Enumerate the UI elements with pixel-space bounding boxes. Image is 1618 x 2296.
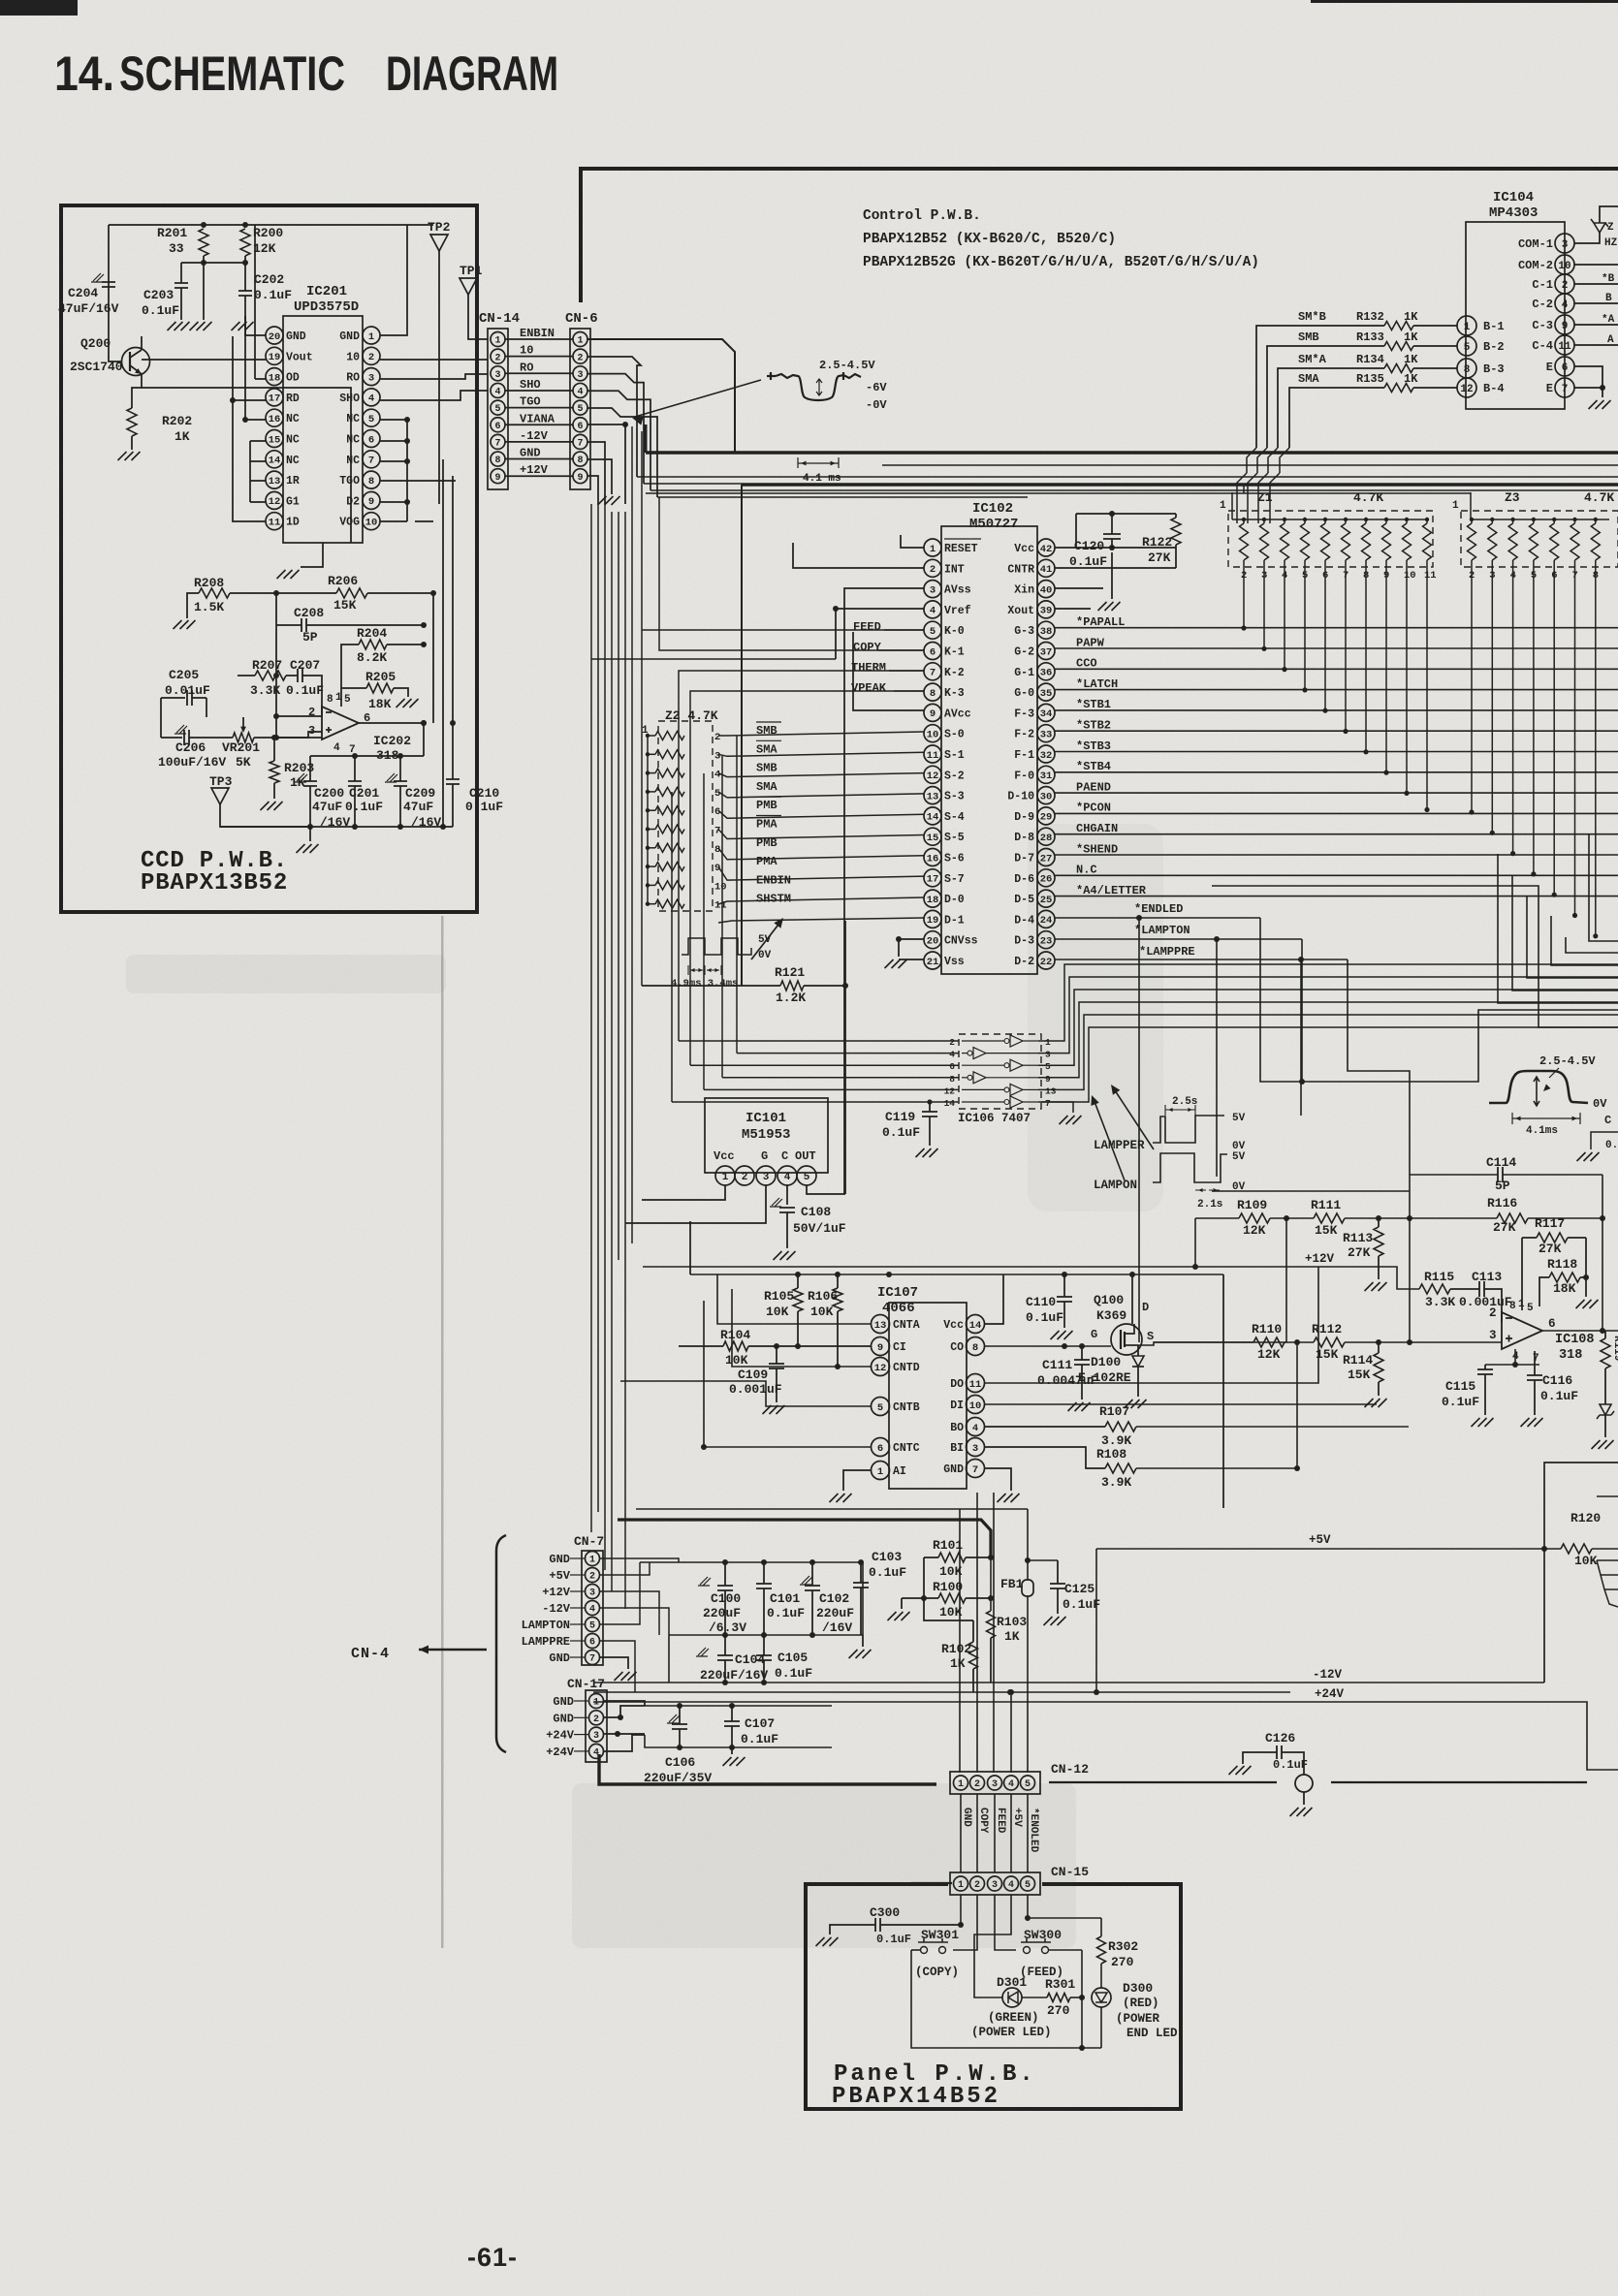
CN-12 pin 1	[954, 1776, 968, 1790]
IC201 UPD3575D body	[283, 316, 363, 543]
wire IC102 left pin stubs to bundle	[901, 535, 924, 548]
IC102 pin 21 Vss	[924, 952, 941, 969]
IC102 pin 17 S-7	[924, 869, 941, 887]
wire SMB bus crossing jog	[1257, 448, 1267, 473]
wire +24V rail	[593, 1702, 1618, 1770]
wire CN-15 pin3 feed	[995, 1895, 1016, 1950]
Z2 resistor 8	[655, 843, 684, 852]
wire D-4 row	[1055, 917, 1260, 919]
wire thick CN-12 feed	[599, 1754, 936, 1784]
wire R208 right node	[230, 592, 336, 594]
IC102 pin 3 AVss	[924, 581, 941, 598]
wire bundle link rows	[591, 658, 836, 660]
wire R100/R101 node	[923, 1557, 925, 1598]
IC101 M51953 body	[705, 1098, 828, 1173]
wire CN-6 pin1 to bus A	[587, 339, 735, 453]
wire Q200 collector to IC201 Vout	[141, 336, 143, 350]
wire IC102 pin 33 to right	[1055, 730, 1618, 732]
wire C204 column	[109, 225, 122, 362]
CN-15 pin 2	[970, 1876, 985, 1891]
IC102 pin 5 K-0	[924, 621, 941, 639]
wire IC107 vcc rail	[690, 1274, 1223, 1275]
IC102 pin 2 INT	[924, 559, 941, 577]
wire D-0 D-1 rows from Z2	[718, 897, 924, 904]
CN-14 pin 5	[491, 400, 505, 415]
Z3 resistor 4	[1508, 523, 1517, 560]
IC102 pin 18 D-0	[924, 890, 941, 907]
wire R132 row	[1413, 325, 1457, 327]
wire bus B riser	[741, 485, 743, 986]
wire IC101 pin5 out	[807, 1185, 845, 1194]
Z3 resistor 6	[1550, 523, 1559, 560]
ground below R201	[190, 322, 212, 330]
IC107 pin 4 BO	[967, 1418, 985, 1436]
IC102 pin 34 F-3	[1037, 704, 1055, 721]
Z2 resistor 5	[655, 787, 684, 796]
IC201 pin 5 NC	[363, 409, 380, 426]
bus B thick horizontal	[742, 483, 1618, 487]
Z3 top rail	[1471, 519, 1609, 520]
IC201 pin 16 NC	[266, 409, 283, 426]
IC102 pin 36 G-1	[1037, 663, 1055, 680]
wire SM*B bus crossing jog	[1247, 448, 1256, 473]
wire C107 ground	[731, 1747, 733, 1754]
ground CN-6 pin8	[598, 496, 620, 505]
page corner mark	[0, 0, 78, 16]
wire IC107 Vcc to rail	[984, 1274, 1003, 1324]
wire Z1 pin 10 drop	[1406, 560, 1408, 793]
IC102 pin 32 F-1	[1037, 745, 1055, 763]
wire C106 C107 rails	[645, 1705, 832, 1707]
Z1 resistor 8	[1362, 523, 1371, 560]
wire cap bank low rail	[722, 1680, 728, 1685]
wire lamppre drop	[1300, 959, 1302, 1116]
IC102 pin 22 D-2	[1037, 952, 1055, 969]
wire feedback box left vertical	[1409, 1175, 1411, 1342]
CN-15 pin 4	[1004, 1876, 1019, 1891]
wire CN-15 pin2 copy	[953, 1895, 977, 1950]
CN-6 pin 6	[573, 418, 587, 432]
wire top rail CCD	[109, 224, 433, 226]
wire control area lower border	[882, 464, 1618, 466]
IC104 pin 5 B-2	[1457, 336, 1476, 356]
ground below C202	[232, 322, 254, 330]
CCD P.W.B. board outline	[61, 205, 477, 912]
IC101 pin 1	[715, 1166, 735, 1185]
ground R203	[261, 802, 283, 810]
arrow to SHSTM	[751, 921, 781, 959]
ground C300	[816, 1937, 839, 1946]
Z2 resistor 2	[655, 732, 684, 740]
IC104 pin 8 B-3	[1457, 359, 1476, 378]
ground C125	[1044, 1617, 1066, 1625]
wire CN-6 pin6 node	[587, 425, 625, 504]
ground cap bank	[862, 1635, 864, 1647]
IC107 pin 9 CI	[872, 1337, 890, 1356]
CN-6 pin 4	[573, 383, 587, 397]
wire op-amp pin2 input	[276, 715, 322, 717]
IC101 pin 5	[797, 1166, 816, 1185]
wire cap bank mid rail	[669, 1634, 863, 1636]
CN-14 pin 7	[491, 434, 505, 449]
IC104 pin 12 B-4	[1457, 378, 1476, 397]
IC102 pin 41 CNTR	[1037, 559, 1055, 577]
IC107 4066 body	[889, 1303, 967, 1489]
wire C120 ground drop	[1111, 552, 1113, 599]
wire R112-R114 vertical	[1296, 1342, 1298, 1468]
wire Z1 feed line	[646, 492, 1471, 494]
IC102 pin 13 S-3	[924, 787, 941, 804]
capacitor C101	[763, 1562, 765, 1584]
wire GND pin IC107	[984, 1468, 1011, 1491]
wire IC201 left pin stubs	[245, 316, 266, 335]
wire CN-15 pin1 down	[960, 1895, 962, 1925]
IC104 pin 7 E	[1555, 378, 1574, 397]
ground below C203	[168, 322, 190, 330]
ground R118	[1576, 1300, 1599, 1308]
CN-12 pin 3	[988, 1776, 1002, 1790]
ground CCD bottom rail	[297, 844, 319, 853]
wire Z3 pin 2 drop	[1471, 560, 1473, 812]
CN-12 pin 5	[1021, 1776, 1035, 1790]
wire CCD output rail	[310, 755, 424, 757]
waveform VIANA analog bump	[1489, 1071, 1588, 1103]
wire IC104 COM-2 C-1..C-4 outputs	[1574, 264, 1618, 266]
wire staircase to right rows	[637, 476, 1618, 478]
CN-17 pin 3	[589, 1727, 604, 1742]
IC102 pin 16 S-6	[924, 849, 941, 866]
wire CN-14/7 to CN-6/7	[505, 441, 573, 443]
wire Q100 source	[1138, 1342, 1286, 1345]
IC102 pin 29 D-9	[1037, 807, 1055, 825]
IC102 pin 7 K-2	[924, 663, 941, 680]
IC102 pin 39 Xout	[1037, 601, 1055, 618]
wire CN-6 pin8 to ground	[587, 459, 612, 494]
IC201 pin 2 10	[363, 347, 380, 364]
Z2 resistor 9	[655, 863, 684, 871]
ground C119	[916, 1148, 938, 1157]
wire cap bank risers	[668, 1635, 670, 1683]
IC107 pin 8 CO	[967, 1337, 985, 1356]
wire grid horizontals right	[1212, 886, 1618, 1027]
wire CNTA row	[717, 1274, 872, 1324]
IC201 pin 20 GND	[266, 327, 283, 344]
IC201 pin 9 D2	[363, 491, 380, 509]
CN-14 pin 9	[491, 469, 505, 484]
wire long row K0	[853, 630, 884, 632]
Z3 resistor 7	[1570, 523, 1579, 560]
Z1 resistor 11	[1423, 523, 1432, 560]
wire R111-R110 junction vertical	[1285, 1218, 1287, 1342]
IC104 pin 2 C-1	[1555, 274, 1574, 294]
Panel P.W.B. board outline	[806, 1884, 1181, 2109]
IC102 pin 9 AVcc	[924, 704, 941, 721]
CN-17 pin 1	[589, 1694, 604, 1709]
IC102 pin 37 G-2	[1037, 643, 1055, 660]
capacitor C104	[696, 1648, 709, 1656]
Z1 resistor 7	[1342, 523, 1350, 560]
wire Z3 pin 8 drop	[1595, 560, 1597, 936]
wire Z1 pin 6 drop	[1324, 560, 1326, 710]
Z2 resistor 3	[655, 750, 684, 759]
CN-14 pin 1	[491, 332, 505, 347]
wire CN-12 pin 3 down	[994, 1794, 996, 1872]
wire staircase right block	[1260, 918, 1618, 1082]
Z3 resistor 5	[1529, 523, 1538, 560]
wire CN-12 pin 1 down	[960, 1794, 962, 1872]
wire CN-14/9 to CN-6/9	[505, 475, 573, 477]
arrow waveform to CN-6 pin6	[635, 380, 761, 417]
wire CN-12 right rail	[1049, 1781, 1277, 1783]
IC107 pin 11 DO	[967, 1374, 985, 1393]
wire gate row	[984, 1345, 1111, 1347]
CN-17 pin 2	[589, 1711, 604, 1725]
resistor array Z2 dashed box	[658, 721, 713, 911]
wire SMA bus crossing jog	[1280, 448, 1289, 473]
wire CCD bottom rail	[220, 826, 453, 828]
wire IC201 right pin wires	[380, 225, 407, 335]
CN-14 pin 8	[491, 452, 505, 466]
wire AI pin	[843, 1470, 872, 1491]
IC102 pin 10 S-0	[924, 725, 941, 742]
wire CN-15 pin5 led feed	[1027, 1895, 1029, 1918]
IC104 pin 10 COM-2	[1555, 255, 1574, 274]
wire cap bank top rail	[640, 1561, 863, 1563]
CN-17 pin 4	[589, 1744, 604, 1758]
wire rows feeding IC106	[736, 736, 738, 1054]
wire op-amp feedback column	[340, 696, 342, 707]
IC104 pin 6 E	[1555, 357, 1574, 376]
wire CN-14/5 to CN-6/5	[505, 407, 573, 409]
CN-15 pin 5	[1021, 1876, 1035, 1891]
IC101 pin 2	[735, 1166, 754, 1185]
wire CN-6 pin7	[587, 442, 605, 504]
wire R205 ends	[341, 687, 366, 689]
wire Z1 pin 7 drop	[1345, 560, 1347, 732]
wire CN-17 pin wires	[604, 1701, 645, 1706]
ghost smudge 3	[126, 955, 446, 993]
IC102 pin 8 K-3	[924, 683, 941, 701]
Z1 top rail	[1232, 519, 1427, 520]
wire R134 row	[1413, 367, 1457, 369]
zener diode ZD (edge)	[1574, 233, 1600, 243]
IC102 pin 11 S-1	[924, 745, 941, 763]
wire R121 node vertical	[844, 921, 846, 1194]
ground below R202	[118, 452, 141, 460]
IC102 pin 1 RESET	[924, 539, 941, 556]
IC102 pin 33 F-2	[1037, 725, 1055, 742]
wire right box verticals	[1544, 1463, 1618, 1549]
wire IC102 pin 34 to right	[1055, 709, 1618, 711]
ground C108	[774, 1251, 796, 1260]
Z1 resistor 5	[1301, 523, 1310, 560]
ground R208	[174, 620, 196, 629]
capacitor C100	[698, 1577, 711, 1586]
wire R207-C207	[238, 675, 255, 676]
wire IC102 pin 36 to right	[1055, 668, 1618, 670]
vertical node column x285	[275, 593, 277, 625]
capacitor C102	[800, 1576, 812, 1585]
connector stub right edge	[1597, 1559, 1618, 1561]
ground edge fragment	[1577, 1152, 1600, 1161]
connector symbol C126 node	[1295, 1775, 1313, 1792]
CN-7 pin 6	[586, 1634, 600, 1649]
ground R100 left	[888, 1612, 910, 1620]
Z1 resistor 10	[1403, 523, 1412, 560]
wire +5V rail	[1096, 1548, 1561, 1550]
IC201 pin 17 RD	[266, 389, 283, 406]
wire FB1 top tap	[1028, 1559, 1058, 1561]
CN-7 pin 7	[586, 1651, 600, 1665]
scan noise overlay	[0, 0, 1, 1]
wire CN-12 pin 4 down	[1010, 1794, 1012, 1872]
wire D-3 row	[1055, 938, 1302, 940]
IC102 pin 30 D-10	[1037, 787, 1055, 804]
CN-6 pin 8	[573, 452, 587, 466]
wire op-amp output	[1542, 1330, 1618, 1332]
wire R204 loop	[341, 645, 359, 696]
wire Xin stub	[1055, 587, 1103, 589]
wire C208 node down	[275, 625, 277, 676]
IC201 pin 12 G1	[266, 491, 283, 509]
wire R206 right	[367, 592, 433, 594]
wire R135 row	[1413, 387, 1457, 389]
IC102 pin 24 D-4	[1037, 910, 1055, 928]
ground C116	[1521, 1418, 1543, 1427]
IC107 pin 6 CNTC	[872, 1438, 890, 1457]
wire IC102 pin 35 to right	[1055, 689, 1618, 691]
CN-7 pin 5	[586, 1618, 600, 1632]
CN-14 pin 4	[491, 383, 505, 397]
IC201 pin 3 RO	[363, 368, 380, 386]
wire C205 loop	[160, 698, 162, 738]
ground C120	[1098, 602, 1121, 611]
IC102 pin 19 D-1	[924, 910, 941, 928]
waveform VIANA pulse	[767, 372, 861, 400]
CN-7 pin 3	[586, 1585, 600, 1599]
wire CN-7 pin7 ground	[600, 1657, 628, 1669]
wire CNTC row	[704, 1301, 872, 1447]
IC102 pin 12 S-2	[924, 766, 941, 783]
IC201 pin 8 TGO	[363, 471, 380, 488]
Z2 resistor 6	[655, 806, 684, 815]
wire Z1 pin 5 drop	[1304, 560, 1306, 690]
IC104 pin 11 C-4	[1555, 335, 1574, 355]
IC102 pin 6 K-1	[924, 643, 941, 660]
ground ZD101	[1592, 1440, 1614, 1449]
wire R208 left to ground	[187, 593, 199, 618]
wire IC101 pin1	[642, 1185, 725, 1200]
IC201 pin 10 VOG	[363, 513, 380, 530]
IC106 7407 dashed box	[959, 1034, 1041, 1109]
wire panel bottom rail	[911, 1950, 1101, 2048]
IC201 pin 13 1R	[266, 471, 283, 488]
IC101 pin 4	[777, 1166, 797, 1185]
Z3 resistor 2	[1468, 523, 1476, 560]
IC107 pin 13 CNTA	[872, 1315, 890, 1334]
ground IC102 Vss	[885, 959, 907, 968]
Z2 common rail	[647, 736, 649, 904]
wire IC201 bottom stub	[301, 543, 323, 567]
IC201 pin 7 NC	[363, 451, 380, 468]
wire CN-14/8 to CN-6/8	[505, 458, 573, 460]
ground IC201 bottom	[277, 570, 300, 579]
CN-6 pin 7	[573, 434, 587, 449]
IC102 pin 4 Vref	[924, 601, 941, 618]
CN-4 brace	[496, 1535, 506, 1752]
wire Z1 pin 4 drop	[1284, 560, 1285, 670]
arrow lamp signals to IC106	[1094, 1099, 1125, 1180]
IC102 pin 35 G-0	[1037, 683, 1055, 701]
wire Z3 pin 7 drop	[1574, 560, 1576, 916]
IC107 pin 7 GND	[967, 1460, 985, 1478]
wire Q100 drain to rail	[1131, 1274, 1133, 1324]
ghost smudge 2	[572, 1783, 1076, 1948]
wire Z1 pin 3 drop	[1263, 560, 1265, 648]
wire left feeds to cap bank	[600, 1558, 679, 1562]
wire CNTD row	[732, 1289, 872, 1367]
wire feedback verticals to output	[1602, 1175, 1603, 1331]
CN-6 pin 9	[573, 469, 587, 484]
IC104 pin 1 B-1	[1457, 316, 1476, 335]
bus A thick horizontal	[646, 451, 1618, 455]
wire IC102 pin 29 to right	[1055, 812, 1618, 814]
wire -12V rail	[593, 1682, 1544, 1683]
IC102 pin 42 Vcc	[1037, 539, 1055, 556]
IC102 pin 27 D-7	[1037, 849, 1055, 866]
wire Z3 pin 4 drop	[1512, 560, 1514, 854]
IC102 pin 26 D-6	[1037, 869, 1055, 887]
IC201 pin 6 NC	[363, 430, 380, 448]
CN-15 pin 1	[954, 1876, 968, 1891]
ground C126 left	[1229, 1766, 1252, 1775]
IC201 pin 11 1D	[266, 513, 283, 530]
ground C126 node	[1290, 1808, 1313, 1816]
CN-6 pin 2	[573, 349, 587, 363]
CN-12 pin 4	[1004, 1776, 1019, 1790]
wire IC102 pin 28 to right	[1055, 833, 1618, 835]
wire bundle drop to power area	[618, 1520, 991, 1557]
IC107 pin 3 BI	[967, 1438, 985, 1457]
wire CN-12 pin 5 down	[1027, 1794, 1029, 1872]
wire emitter branch	[142, 388, 351, 543]
wire CN-12 feed verticals	[959, 1509, 961, 1773]
CN-7 pin 2	[586, 1568, 600, 1583]
wire IC102 pin 30 to right	[1055, 792, 1618, 794]
wire mid gnd rail	[593, 1691, 1290, 1693]
wire CN-12 pin 2 down	[976, 1794, 978, 1872]
ground C110	[1051, 1331, 1073, 1339]
wire mid feedback feeds	[1212, 1190, 1410, 1192]
wire left bundle verticals	[590, 504, 592, 1532]
IC102 pin 14 S-4	[924, 807, 941, 825]
ground R114	[1365, 1399, 1387, 1407]
wire CN-14/4 to CN-6/4	[505, 390, 573, 392]
wire CCD right verticals	[432, 593, 434, 723]
wire IC102 pin 37 to right	[1055, 647, 1618, 649]
wire Z1 pin 8 drop	[1365, 560, 1367, 752]
wire CN-14/6 to CN-6/6	[505, 424, 573, 425]
CN-7 pin 4	[586, 1601, 600, 1616]
wire IC104 E pins to ground	[1574, 366, 1602, 388]
control board border top	[581, 167, 1618, 171]
wire Q200 emitter	[132, 374, 142, 408]
IC201 pin 1 GND	[363, 327, 380, 344]
wire DO row	[984, 1267, 1318, 1383]
wire R201 bottom node	[203, 256, 205, 285]
wire Z3 pin 5 drop	[1533, 560, 1535, 874]
CN-6 pin 3	[573, 366, 587, 381]
